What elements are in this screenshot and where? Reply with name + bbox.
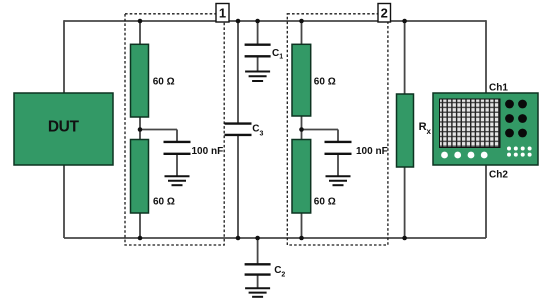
- svg-text:60 Ω: 60 Ω: [153, 197, 175, 208]
- svg-text:1: 1: [219, 6, 226, 21]
- svg-text:2: 2: [381, 6, 388, 21]
- svg-text:60 Ω: 60 Ω: [153, 77, 175, 88]
- svg-text:100 nF: 100 nF: [356, 146, 388, 157]
- svg-text:Ch2: Ch2: [489, 170, 508, 181]
- svg-text:60 Ω: 60 Ω: [314, 77, 336, 88]
- svg-text:Ch1: Ch1: [489, 83, 508, 94]
- svg-text:60 Ω: 60 Ω: [314, 197, 336, 208]
- svg-text:DUT: DUT: [48, 118, 80, 135]
- svg-text:100 nF: 100 nF: [192, 146, 224, 157]
